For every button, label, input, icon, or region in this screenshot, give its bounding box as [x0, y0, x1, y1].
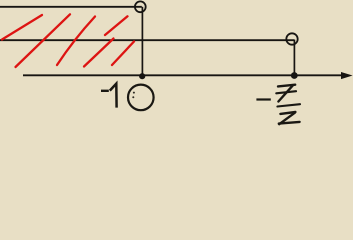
top boundary line — [0, 6, 142, 8]
denominator 2 diagonal — [279, 113, 295, 125]
number line axis — [23, 74, 342, 76]
hand-drawn circle after -1 — [128, 85, 154, 111]
numerator 7 diagonal — [278, 85, 293, 101]
label -1 minus — [101, 90, 109, 92]
open circle at top of x=-1 line — [135, 1, 146, 12]
fraction minus sign — [256, 98, 270, 100]
middle boundary line — [0, 39, 294, 41]
red hatch stroke B — [16, 14, 71, 67]
axis arrowhead — [341, 72, 353, 79]
pen dot upper inside circle — [133, 92, 135, 94]
red hatch stroke E — [112, 42, 134, 66]
red hatch stroke D lower — [84, 39, 114, 67]
red hatch stroke C — [57, 17, 95, 66]
right vertical line — [293, 40, 295, 76]
filled dot at -1 on axis — [139, 73, 145, 79]
numerator 7 crossbar — [276, 91, 296, 93]
open circle at top of right vertical line — [286, 33, 297, 44]
red hatch stroke D upper — [105, 16, 128, 35]
red hatch stroke A — [2, 15, 42, 40]
filled dot at right point on axis — [291, 72, 298, 79]
label -1 digit one — [110, 84, 117, 108]
vertical line at x=-1 — [141, 7, 143, 76]
pen dot lower inside circle — [132, 96, 134, 98]
numerator 7 top stroke — [278, 85, 295, 87]
denominator 2 top stroke — [280, 112, 295, 114]
denominator 2 bottom stroke — [279, 122, 300, 124]
fraction bar — [277, 104, 300, 106]
